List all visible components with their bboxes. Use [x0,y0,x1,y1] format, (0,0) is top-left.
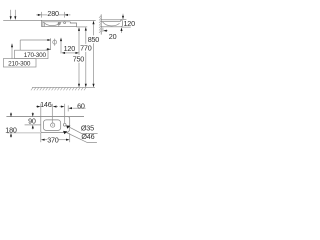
svg-text:750: 750 [73,54,85,63]
svg-text:90: 90 [28,116,36,125]
svg-text:370: 370 [47,136,59,145]
svg-text:770: 770 [80,44,92,53]
svg-text:120: 120 [123,19,135,28]
svg-text:Ø46: Ø46 [81,132,94,141]
svg-text:170-300: 170-300 [24,52,47,59]
svg-text:20: 20 [109,32,117,41]
svg-text:120: 120 [64,44,76,53]
svg-text:146: 146 [40,100,52,109]
svg-text:280: 280 [47,9,59,18]
svg-text:60: 60 [77,101,85,110]
svg-text:Ø35: Ø35 [81,123,94,132]
svg-text:210-300: 210-300 [8,60,31,67]
svg-text:180: 180 [5,125,17,134]
